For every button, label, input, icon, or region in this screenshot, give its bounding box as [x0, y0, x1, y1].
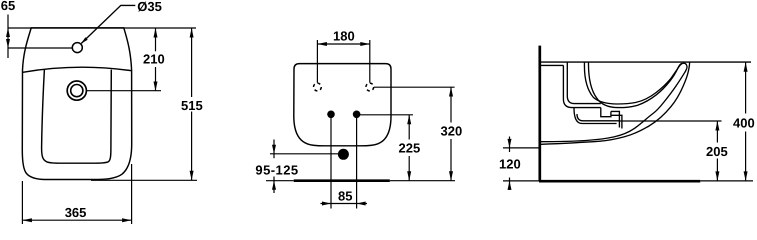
spout circle inner [71, 85, 83, 97]
320 extension line from tap hole [374, 86, 455, 88]
deck channel double line [563, 62, 622, 128]
verticals through dots [330, 114, 332, 208]
dim 210 extension line at spout center [87, 90, 162, 92]
svg-text:400: 400 [733, 115, 755, 130]
dim 365 extension lines [21, 181, 23, 224]
side deck under-edge [541, 64, 563, 66]
dim 65 extension line at hole center [8, 47, 72, 49]
svg-text:85: 85 [338, 188, 352, 203]
ground extension line front [91, 179, 197, 181]
dim 205 extension line [620, 120, 722, 122]
underside and front face outer silhouette [541, 62, 690, 144]
plan fixing dots [327, 111, 335, 119]
dimension 365 [22, 218, 131, 222]
dimension 95-125 [272, 140, 276, 194]
svg-text:225: 225 [399, 140, 421, 155]
dimension 180 [317, 40, 369, 83]
floor thin extensions [503, 180, 539, 182]
95-125 line to drain dot [270, 153, 348, 155]
wall line side (thick) [538, 46, 541, 181]
shell underside pair [574, 108, 619, 128]
dim 65 extension top line [8, 27, 196, 29]
spout circle outer [67, 81, 86, 100]
dimension 515 [190, 28, 194, 180]
dimension 210 [154, 28, 158, 91]
dimension 320 [449, 87, 453, 181]
svg-text:210: 210 [143, 52, 165, 67]
plan drain dot [338, 149, 349, 160]
dimension 205 [715, 121, 719, 181]
svg-text:Ø35: Ø35 [137, 0, 162, 14]
svg-text:365: 365 [65, 205, 87, 220]
bowl companion line [588, 62, 682, 108]
dim 120 extension line [503, 147, 539, 149]
nozzle bump [601, 108, 611, 117]
svg-text:65: 65 [1, 0, 15, 13]
plan outline [294, 64, 391, 146]
front panel [42, 69, 112, 163]
bowl interior, rim curl and front inner contour [541, 62, 687, 142]
plan left tap hole (dashed) [314, 83, 322, 91]
svg-text:515: 515 [181, 98, 203, 113]
plan right tap hole (dashed) [366, 83, 374, 91]
225 extension line from dot [357, 114, 413, 116]
svg-text:120: 120 [499, 156, 521, 171]
tap hole circle front [72, 43, 82, 53]
svg-text:180: 180 [333, 28, 355, 43]
wall line plan (thick) [266, 180, 294, 182]
dimension 65 [6, 15, 10, 59]
side top surface line [541, 61, 751, 63]
dimension 85 [321, 202, 368, 206]
front view outer outline [22, 28, 131, 180]
floor line side (thick) [539, 180, 700, 183]
dimension 120 [508, 137, 512, 191]
dimension 225 [407, 115, 411, 181]
front deck arc [23, 67, 132, 72]
svg-text:205: 205 [706, 144, 728, 159]
dimension 400 [744, 62, 748, 181]
leader Ø35 [81, 5, 135, 43]
svg-text:95-125: 95-125 [255, 163, 298, 178]
svg-text:320: 320 [441, 123, 463, 138]
